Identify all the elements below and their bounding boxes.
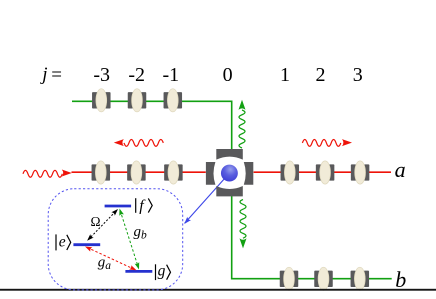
cavity j=3 a-rail bbox=[351, 161, 369, 184]
svg-text:-1: -1 bbox=[162, 64, 179, 86]
cavity j=2 a-rail bbox=[316, 161, 334, 184]
cavity j=-2 top rail bbox=[128, 89, 147, 112]
g_a coupling arrow bbox=[85, 247, 137, 271]
svg-text:g: g bbox=[158, 262, 166, 279]
label |g> bbox=[156, 264, 171, 280]
top rail wire (b-line, left) bbox=[72, 101, 232, 150]
g_b coupling arrow bbox=[119, 209, 139, 270]
atom-cavity node j=0 bbox=[206, 149, 253, 196]
svg-text:1: 1 bbox=[280, 64, 290, 86]
emitted photon wavy arrow (down, green) bbox=[240, 200, 247, 249]
a-rail wire right segment bbox=[254, 171, 391, 173]
cavity j=-3 a-rail bbox=[92, 161, 111, 184]
svg-text:2: 2 bbox=[316, 64, 326, 86]
level |e> bbox=[73, 243, 100, 246]
svg-text:-3: -3 bbox=[93, 64, 110, 86]
pointer wire from atom to level diagram bbox=[185, 173, 230, 223]
level |g> bbox=[125, 270, 152, 273]
atom (blue sphere) bbox=[221, 165, 238, 182]
transmitted photon wavy arrow (middle-right, red, pointing right) bbox=[302, 139, 352, 146]
level |f> bbox=[105, 205, 132, 208]
cavity j=2 b-rail bbox=[314, 267, 333, 290]
svg-text:b: b bbox=[395, 267, 406, 292]
level-diagram bubble (dashed) bbox=[48, 189, 183, 290]
input photon wavy arrow (left edge, red) bbox=[23, 170, 72, 178]
cavity j=-1 top rail bbox=[164, 89, 183, 112]
baseline (substrate line) bbox=[0, 289, 436, 291]
scattered photon wavy arrow (middle-left, red, pointing left) bbox=[114, 139, 164, 146]
cavity j=1 a-rail bbox=[281, 161, 300, 184]
cavity j=-1 a-rail bbox=[164, 161, 183, 184]
svg-text:e: e bbox=[59, 234, 66, 251]
cavity j=-3 top rail bbox=[92, 89, 111, 112]
label |e> bbox=[56, 234, 71, 250]
Omega drive arrow bbox=[87, 209, 118, 241]
label |f> bbox=[136, 198, 153, 213]
emitted photon wavy arrow (up, green) bbox=[239, 100, 246, 148]
svg-text:=: = bbox=[51, 64, 62, 85]
svg-text:3: 3 bbox=[353, 64, 363, 86]
a-rail wire left segment bbox=[72, 171, 206, 173]
bottom rail wire (b-line, right) bbox=[232, 196, 392, 279]
svg-text:-2: -2 bbox=[128, 64, 145, 86]
svg-text:Ω: Ω bbox=[90, 214, 100, 229]
cavity j=3 b-rail bbox=[351, 267, 370, 290]
svg-text:0: 0 bbox=[223, 64, 233, 86]
cavity j=1 b-rail bbox=[280, 267, 299, 290]
svg-text:a: a bbox=[395, 157, 406, 182]
cavity j=-2 a-rail bbox=[127, 161, 146, 184]
